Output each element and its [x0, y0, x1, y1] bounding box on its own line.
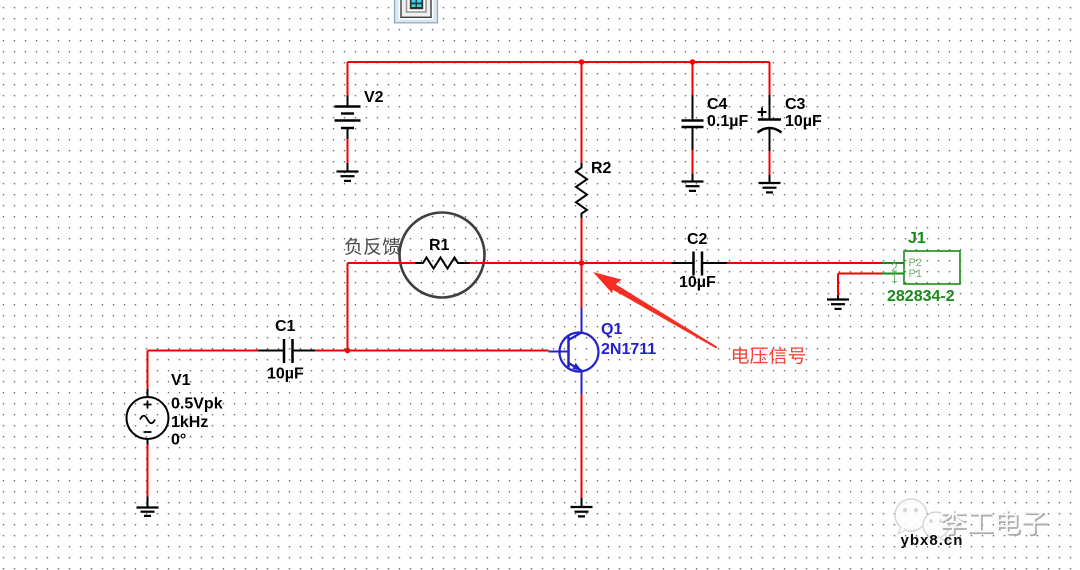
junction node at C1	[345, 348, 351, 354]
connector J1	[882, 230, 960, 305]
svg-text:P1: P1	[909, 268, 922, 280]
svg-text:10µF: 10µF	[679, 274, 716, 291]
svg-text:R1: R1	[429, 237, 450, 254]
svg-text:V2: V2	[364, 89, 384, 106]
ground under V1	[137, 497, 159, 516]
watermark text 李工电子	[940, 510, 1047, 537]
svg-text:1: 1	[891, 271, 898, 285]
wire: J1 pin1 to ground	[838, 274, 882, 296]
capacitor C4	[682, 62, 749, 174]
svg-text:C3: C3	[785, 96, 806, 113]
ground under C4	[682, 174, 704, 191]
svg-text:1kHz: 1kHz	[171, 414, 208, 431]
svg-text:0°: 0°	[171, 432, 186, 449]
svg-text:ybx8.cn: ybx8.cn	[901, 532, 964, 549]
svg-text:2N1711: 2N1711	[601, 341, 656, 358]
ground under V2	[337, 163, 359, 181]
svg-text:282834-2: 282834-2	[887, 288, 955, 305]
svg-text:Q1: Q1	[601, 321, 622, 338]
capacitor C3 (polarized)	[758, 62, 823, 175]
text 电压信号	[733, 347, 805, 365]
wire: vertical feedback branch	[347, 263, 349, 351]
svg-text:J1: J1	[908, 230, 926, 247]
junction node at C4 top	[690, 59, 696, 65]
watermark icon	[895, 499, 949, 541]
svg-text:C1: C1	[275, 318, 296, 335]
svg-text:0.5Vpk: 0.5Vpk	[171, 396, 223, 413]
svg-text:C4: C4	[707, 96, 728, 113]
text 负反馈	[345, 238, 400, 256]
svg-text:10µF: 10µF	[267, 366, 304, 383]
svg-text:R2: R2	[591, 160, 612, 177]
svg-text:10µF: 10µF	[785, 113, 822, 130]
feedback loop circle	[400, 213, 485, 298]
capacitor C1	[259, 318, 316, 383]
svg-text:V1: V1	[171, 372, 191, 389]
svg-text:C2: C2	[687, 231, 708, 248]
annotation arrow	[593, 272, 717, 349]
capacitor C2	[672, 231, 728, 291]
junction node at R2 top	[579, 59, 585, 65]
toolbar icon (clipped at top)	[395, 0, 438, 23]
ground near J1	[827, 296, 849, 309]
ground under C3	[759, 175, 781, 192]
wire: mid horizontal middle segment	[470, 262, 672, 264]
wire: emitter to ground	[581, 394, 583, 498]
wire: top bus	[348, 61, 770, 63]
transistor Q1	[549, 308, 657, 394]
wire: bottom horizontal right	[315, 350, 549, 352]
junction node mid	[579, 260, 585, 266]
svg-text:0.1µF: 0.1µF	[707, 113, 748, 130]
source V1	[127, 351, 223, 497]
wire: mid horizontal right segment	[727, 262, 882, 264]
battery V2	[335, 62, 384, 163]
wire: collector to node	[581, 263, 583, 308]
resistor R2	[576, 62, 612, 263]
resistor R1	[415, 237, 470, 269]
wire: mid horizontal left segment	[348, 262, 416, 264]
ground under Q1	[571, 498, 593, 516]
wire: bottom horizontal left	[148, 350, 259, 352]
